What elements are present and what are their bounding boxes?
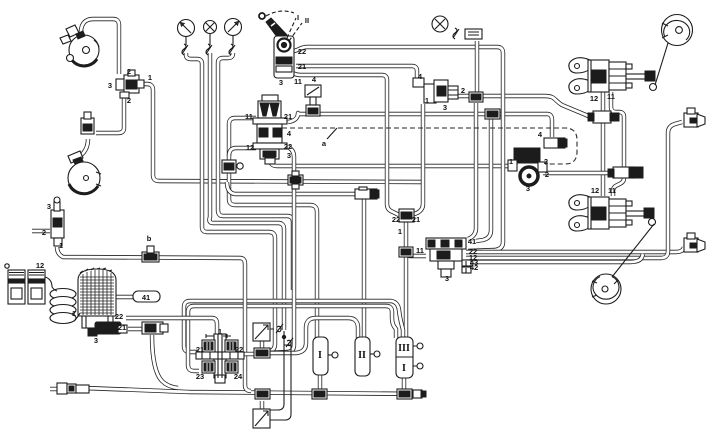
regeneration line fitting bbox=[142, 322, 168, 334]
wire four circuit valve port 23 loop to reservoir III bbox=[188, 306, 396, 371]
svg-text:21: 21 bbox=[196, 345, 204, 354]
wire regeneration fitting down to line R5 bbox=[152, 335, 178, 388]
fitting 11 trailer line bbox=[399, 247, 413, 257]
wire trailer valve to rear coupling head bbox=[466, 247, 684, 252]
dashed contour a bbox=[282, 128, 577, 164]
svg-text:2: 2 bbox=[545, 170, 549, 179]
pressure sensor S2 bbox=[253, 409, 270, 428]
wire air dryer outlet 21 to regeneration fitting bbox=[128, 327, 146, 331]
wire air dryer outlet 22 to four circuit valve bbox=[126, 318, 217, 339]
wire bypass valve O down to chamber K2 spring port bbox=[613, 178, 624, 196]
wire gauge 1 line bbox=[186, 53, 275, 352]
svg-text:3: 3 bbox=[287, 151, 291, 160]
svg-text:24: 24 bbox=[234, 372, 243, 381]
svg-text:22: 22 bbox=[115, 312, 123, 321]
wire gauge 2 line to reservoir I bbox=[218, 53, 293, 290]
svg-text:21: 21 bbox=[118, 323, 126, 332]
single safety valve bbox=[413, 78, 458, 103]
svg-text:11: 11 bbox=[294, 77, 302, 86]
coupling head lower bbox=[684, 233, 705, 252]
muffler 41 bbox=[133, 291, 160, 302]
wire brake chamber K1 spring port to bypass valve O bbox=[611, 92, 624, 167]
wire safety valve port 1 down to junction tee bbox=[412, 104, 423, 215]
svg-text:I: I bbox=[297, 13, 299, 22]
wire accelerating valve port 2 to bypass valve O bbox=[543, 171, 613, 175]
svg-text:21: 21 bbox=[412, 215, 420, 224]
wire fitting 11 to trailer valve port 11 bbox=[406, 253, 426, 256]
cross fitting X1 bbox=[588, 111, 619, 123]
svg-text:3: 3 bbox=[526, 184, 530, 193]
flexible hose symbol gauge 2 bbox=[229, 44, 235, 55]
brake chamber K2 bbox=[569, 195, 656, 231]
reservoir labels bbox=[318, 343, 410, 374]
wire drain tap stub bbox=[32, 229, 50, 233]
svg-text:22: 22 bbox=[235, 345, 243, 354]
wire T7 down to reservoir II top bbox=[362, 198, 366, 338]
coiled pipe bbox=[50, 287, 80, 324]
trailer control valve bbox=[426, 238, 471, 277]
hand brake valve bbox=[259, 11, 302, 78]
tee T6 and end fitting bbox=[397, 389, 426, 399]
wire branch to brake valve port 12 bbox=[229, 148, 256, 156]
brake shoe block left bbox=[5, 264, 25, 304]
svg-text:3: 3 bbox=[94, 336, 98, 345]
svg-text:b: b bbox=[147, 234, 152, 243]
air dryer bbox=[78, 268, 127, 336]
wire trailer valve port 43 line bbox=[466, 254, 643, 262]
wire regulator bottom to antifreeze valve bbox=[96, 96, 124, 133]
svg-text:21: 21 bbox=[298, 62, 306, 71]
wire cross X1 down to brake chamber K2 bbox=[601, 123, 605, 196]
svg-text:3: 3 bbox=[108, 81, 112, 90]
tee fitting T7 bbox=[355, 187, 379, 199]
wire junction tee down through fitting 11 to reservoir III bbox=[404, 222, 408, 338]
wire drain valve line down to R5 bbox=[57, 247, 251, 391]
wire brake chamber K1 to cross X1 bbox=[601, 92, 605, 111]
four circuit protection valve bbox=[196, 334, 244, 383]
wire brake valve bottom outlet to accelerating valve port 1 bbox=[270, 156, 510, 166]
brake valve two-section bbox=[253, 95, 287, 164]
wire regulator right down to condense line R2 bbox=[141, 84, 422, 182]
wire four circuit valve port 22 to tee T3 bbox=[242, 352, 256, 356]
cross fitting on condense line bbox=[288, 171, 303, 189]
svg-text:3: 3 bbox=[279, 78, 283, 87]
svg-text:I: I bbox=[402, 363, 406, 374]
wire brake valve port 22 down along frame bbox=[268, 147, 294, 353]
svg-text:11: 11 bbox=[245, 112, 253, 121]
svg-text:1: 1 bbox=[148, 73, 152, 82]
svg-text:III: III bbox=[398, 343, 410, 354]
control port valve 4 bbox=[305, 85, 321, 116]
svg-text:3: 3 bbox=[445, 274, 449, 283]
coupling head upper bbox=[684, 108, 705, 127]
wire compressor to regulator bbox=[81, 19, 119, 74]
drain valve b bbox=[142, 246, 159, 262]
svg-text:42: 42 bbox=[470, 263, 478, 272]
pressure gauge 2 bbox=[225, 19, 242, 46]
pressure regulator bbox=[116, 70, 144, 98]
wire tee T1 down to trailer valve port 41 bbox=[468, 103, 476, 239]
pressure gauge 1 bbox=[178, 20, 195, 46]
svg-text:2: 2 bbox=[544, 157, 548, 166]
connector Q bbox=[57, 383, 89, 394]
control lamp bbox=[432, 16, 448, 32]
svg-text:22: 22 bbox=[284, 142, 292, 151]
wire T3 loop over to reservoir II top bbox=[268, 318, 358, 353]
junction tee 22 21 bbox=[399, 209, 414, 222]
svg-text:2: 2 bbox=[461, 86, 465, 95]
wire tee T4 stem to sensor bbox=[260, 401, 264, 410]
condensation tank bbox=[68, 151, 101, 194]
svg-text:12: 12 bbox=[246, 143, 254, 152]
wire riser to brake valve port 11 bbox=[229, 118, 256, 172]
svg-text:1: 1 bbox=[425, 96, 429, 105]
tee T5 bbox=[312, 389, 327, 399]
check fitting on accelerating valve port 4 bbox=[544, 138, 567, 148]
svg-text:11: 11 bbox=[607, 92, 615, 101]
tee fitting T2 bbox=[485, 109, 500, 119]
svg-text:21: 21 bbox=[284, 112, 292, 121]
svg-text:3: 3 bbox=[443, 103, 447, 112]
svg-text:41: 41 bbox=[142, 293, 150, 302]
svg-text:11: 11 bbox=[416, 246, 424, 255]
warning lamp gauge bbox=[204, 21, 217, 46]
flexible hose symbol gauge 1 bbox=[182, 44, 188, 55]
svg-text:I: I bbox=[318, 350, 322, 361]
svg-text:22: 22 bbox=[392, 215, 400, 224]
wire antifreeze valve to condensation tank bbox=[80, 139, 88, 156]
flexible hose symbol lamp bbox=[206, 44, 212, 55]
svg-text:12: 12 bbox=[36, 261, 44, 270]
svg-text:11: 11 bbox=[608, 186, 616, 195]
wire brake valve port 21 to upper service line and accelerating valve port 4 bbox=[288, 113, 552, 137]
svg-text:II: II bbox=[305, 16, 309, 25]
wire hand valve port 21 to safety valve port 4 bbox=[296, 66, 417, 81]
wire bottom long line R5 bbox=[80, 388, 424, 394]
wire trailer valve to upper coupling head riser bbox=[466, 122, 682, 258]
svg-text:12: 12 bbox=[590, 94, 598, 103]
reservoir I bbox=[313, 337, 338, 375]
wire reservoir I bottom to line R5 bbox=[318, 374, 322, 390]
wire tee T2 down to trailer valve bbox=[476, 119, 491, 241]
svg-text:41: 41 bbox=[468, 237, 476, 246]
tee fitting with test cap on riser bbox=[222, 160, 243, 173]
wire four circuit valve port 21 loop to reservoir III bbox=[184, 301, 403, 352]
svg-text:1: 1 bbox=[72, 309, 76, 318]
air bleed tap bbox=[51, 197, 64, 246]
wire stoplight switch down to tee T1 bbox=[475, 41, 479, 92]
brake drum front bbox=[655, 15, 693, 86]
wire control lamp line bbox=[209, 53, 284, 330]
svg-text:23: 23 bbox=[196, 372, 204, 381]
svg-text:1: 1 bbox=[398, 227, 402, 236]
tee T4 bbox=[255, 389, 270, 399]
compressor bbox=[60, 25, 99, 66]
svg-text:1: 1 bbox=[509, 157, 513, 166]
wire reservoir III bottom to line R5 bbox=[402, 377, 406, 390]
svg-text:II: II bbox=[358, 350, 366, 361]
wire air dryer to muffler bbox=[116, 295, 136, 299]
tee T3 bbox=[254, 348, 270, 358]
brake drum rear bbox=[591, 224, 654, 304]
wire safety valve port 2 to stoplight switch tee and diagonal to cross bbox=[458, 96, 594, 117]
pointer to label a bbox=[327, 128, 337, 139]
sensor S1 wires bbox=[270, 324, 293, 420]
wire T3 stem to sensor S1 bbox=[260, 340, 264, 349]
pressure sensor S1 bbox=[253, 323, 270, 341]
svg-text:2: 2 bbox=[127, 67, 131, 76]
antifreeze valve bbox=[81, 112, 94, 134]
wire riser through tee down to reservoir I bbox=[229, 170, 317, 338]
bypass valve O bbox=[608, 167, 643, 178]
tee fitting T1 stoplight bbox=[469, 92, 483, 102]
reservoir III I bbox=[396, 337, 423, 378]
svg-text:12: 12 bbox=[591, 186, 599, 195]
brake chamber K1 bbox=[569, 58, 657, 94]
brake shoe block right bbox=[28, 270, 52, 304]
wire connector stub left bbox=[50, 387, 62, 391]
svg-text:2: 2 bbox=[42, 228, 46, 237]
svg-text:22: 22 bbox=[298, 47, 306, 56]
stoplight switch bbox=[465, 29, 482, 39]
accelerating valve bbox=[508, 148, 547, 185]
wire R3 drain line to tee T7 and reservoir II bbox=[227, 182, 360, 194]
svg-text:1: 1 bbox=[218, 327, 222, 336]
wire hand valve port 22 long line down to trailer valve bbox=[294, 47, 503, 251]
svg-text:2: 2 bbox=[127, 96, 131, 105]
svg-text:3: 3 bbox=[47, 202, 51, 211]
flexible hose symbol control lamp bbox=[453, 28, 459, 39]
reservoir II bbox=[355, 337, 380, 376]
svg-text:1: 1 bbox=[59, 241, 63, 250]
wire hand valve port 11 down to junction tee bbox=[293, 73, 399, 215]
